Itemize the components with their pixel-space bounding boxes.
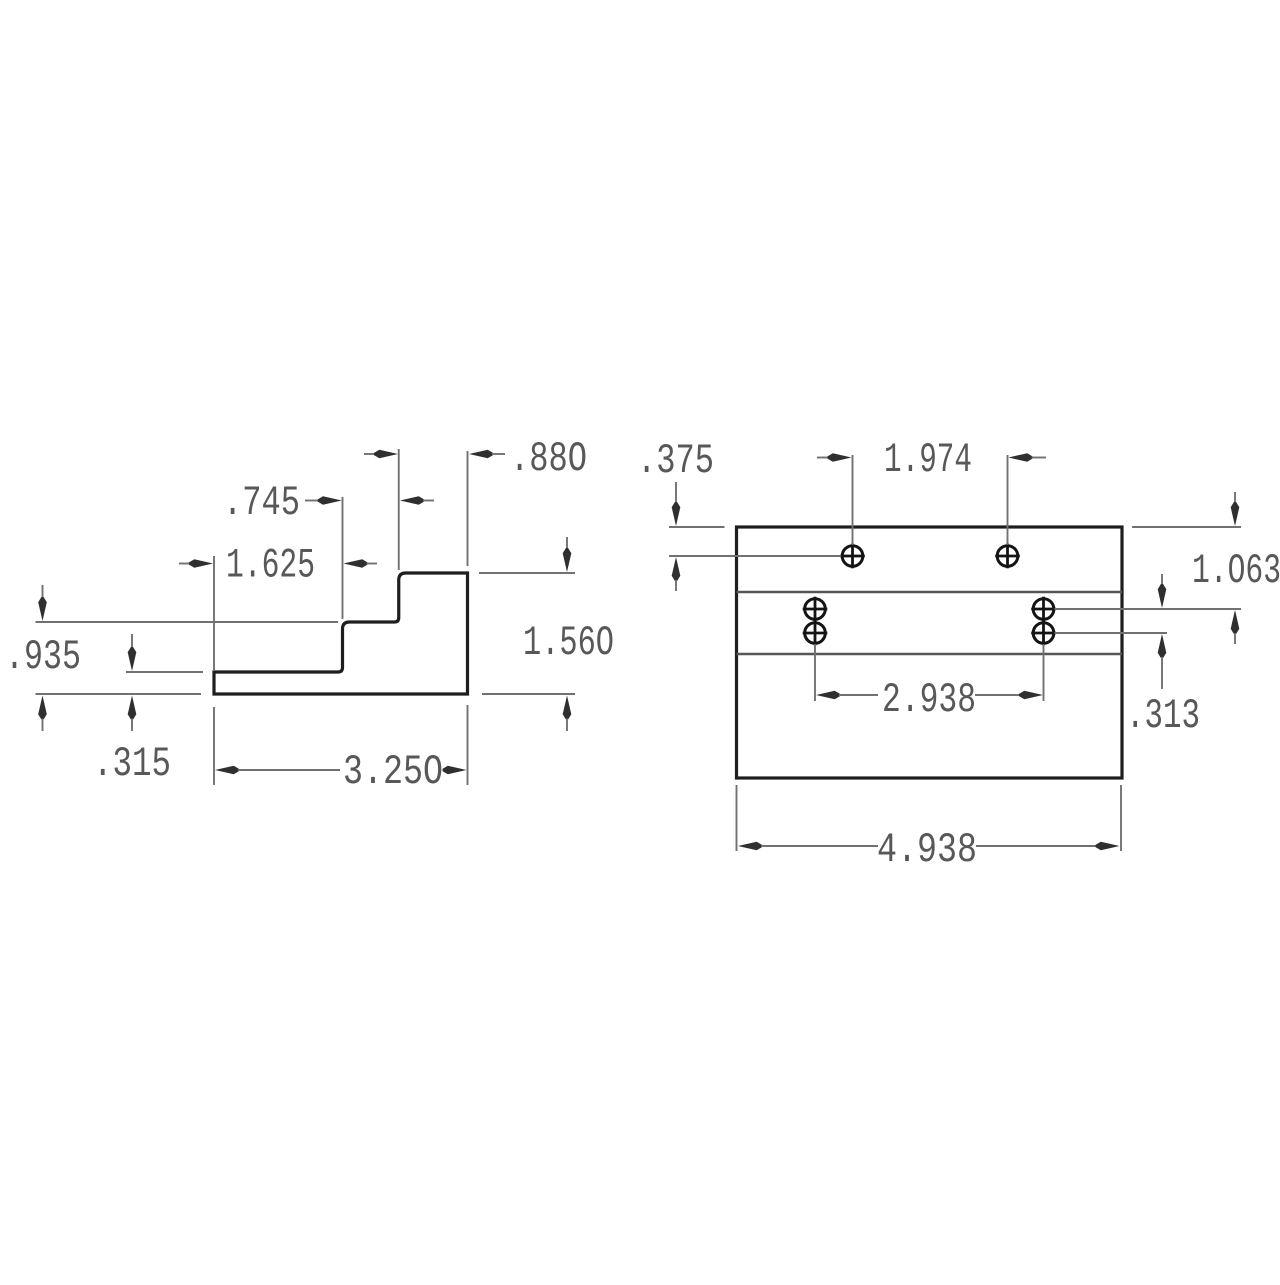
dim text 1.625 <box>226 543 315 590</box>
dim 1.974 right tail <box>1032 457 1047 459</box>
extension line first step x=342.5 <box>342 497 344 619</box>
extension line right edge x=467.5 <box>467 451 469 566</box>
dim .880 right arrowhead <box>469 450 493 459</box>
dim 2.938 line left <box>839 694 878 696</box>
extension line bottom-bar top y=672 <box>126 671 203 673</box>
hole mid-right lower <box>1031 621 1056 646</box>
hole mid-right upper <box>1031 597 1056 622</box>
dim 1.625 right arrowhead <box>344 559 368 568</box>
dim text .880 <box>510 436 587 483</box>
svg-text:.88O: .88O <box>510 436 587 483</box>
svg-text:1.56O: 1.56O <box>523 620 614 667</box>
extension line top hole left x=852.5 <box>852 455 854 545</box>
svg-text:1.O63: 1.O63 <box>1192 548 1280 595</box>
extension line second step x=398.75 <box>398 449 400 570</box>
extension line plate right x=1121 <box>1120 785 1122 851</box>
dim .375 top arrowhead <box>672 502 681 526</box>
dim text .375 <box>637 438 714 485</box>
extension line bottom right y=694 <box>482 693 575 695</box>
extension line x=467.5 for 3.250 <box>467 705 469 785</box>
dim text 1.974 <box>884 437 972 484</box>
svg-text:1.625: 1.625 <box>226 543 315 590</box>
dim 1.974 left tail <box>817 457 831 459</box>
dim text .315 <box>93 741 171 788</box>
dim 2.938 left arrowhead <box>816 691 840 700</box>
dim .315 top arrowhead <box>128 647 137 671</box>
dim text .935 <box>5 634 81 681</box>
dim .313 bottom arrowhead <box>1158 634 1167 658</box>
dim 3.250 right arrowhead <box>443 766 467 775</box>
dim 1.063 bottom tail <box>1234 633 1236 644</box>
dim .313 bottom tail <box>1161 657 1163 689</box>
dim 3.250 line right <box>443 769 446 771</box>
dim 1.560 bottom tail <box>566 719 568 732</box>
extension line top hole right x=1007.5 <box>1007 455 1009 545</box>
dim .315 top tail <box>131 634 133 649</box>
dim .745 right tail <box>423 500 434 502</box>
dim text .313 <box>1126 693 1200 740</box>
extension line mid-step level y=622 <box>36 621 339 623</box>
dim 1.063 bottom arrowhead <box>1231 610 1240 634</box>
svg-text:.313: .313 <box>1126 693 1200 740</box>
hole top-right <box>995 544 1020 569</box>
dim .745 left arrowhead <box>318 496 342 505</box>
svg-text:.315: .315 <box>93 741 171 788</box>
plate interior line upper y=592 <box>737 591 1123 593</box>
dim .313 top tail <box>1161 574 1163 587</box>
hole mid-left upper <box>803 597 828 622</box>
dim 3.250 left arrowhead <box>215 766 239 775</box>
svg-text:.935: .935 <box>5 634 81 681</box>
dim 4.938 right arrowhead <box>1096 842 1120 851</box>
dim text 2.938 <box>882 677 976 724</box>
extension line mid-row lower y=633 <box>1055 632 1168 634</box>
svg-text:2.938: 2.938 <box>882 677 976 724</box>
dim 1.560 top arrowhead <box>563 548 572 572</box>
dim 1.625 right tail <box>367 563 378 565</box>
plate face outline <box>737 527 1123 778</box>
svg-text:1.974: 1.974 <box>884 437 972 484</box>
dim .935 bottom arrowhead <box>38 696 47 720</box>
dim .315 bottom arrowhead <box>128 696 137 720</box>
dim .935 bottom tail <box>42 719 44 732</box>
dim .880 left arrowhead <box>374 450 398 459</box>
svg-text:.375: .375 <box>637 438 714 485</box>
extension line plate top right y=527 <box>1132 526 1241 528</box>
dim text .745 <box>223 480 300 527</box>
dim 3.250 line left <box>238 769 340 771</box>
dim 2.938 line right <box>975 694 1022 696</box>
dim 4.938 line right <box>976 845 1098 847</box>
dim 1.063 top tail <box>1234 492 1236 504</box>
dim .375 bottom arrowhead <box>672 557 681 581</box>
dim 4.938 line left <box>761 845 878 847</box>
extension line x=214 for 3.250 <box>213 707 215 785</box>
dim .375 bottom tail <box>675 580 677 591</box>
plate interior line lower y=654 <box>737 653 1123 655</box>
extension line plate top left y=527 <box>669 526 725 528</box>
dim .745 left tail <box>305 500 320 502</box>
hole mid-left lower <box>803 621 828 646</box>
dim 1.625 left tail <box>179 563 193 565</box>
dim text 4.938 <box>877 827 977 874</box>
dim 1.063 top arrowhead <box>1231 502 1240 526</box>
dim .745 right arrowhead <box>400 496 424 505</box>
extension line left edge x=214 <box>213 556 215 670</box>
dim .313 top arrowhead <box>1158 584 1167 608</box>
dim .935 top tail <box>42 585 44 599</box>
extension line plate left x=736.5 <box>736 785 738 851</box>
bracket side-profile outline <box>214 573 468 694</box>
dim .315 bottom tail <box>131 719 133 732</box>
dim text 3.250 <box>343 749 443 796</box>
svg-text:4.938: 4.938 <box>877 827 977 874</box>
extension line top edge right y=573 <box>479 572 575 574</box>
dim 1.974 right arrowhead <box>1009 453 1033 462</box>
dim 4.938 left arrowhead <box>738 842 762 851</box>
dim 1.560 bottom arrowhead <box>563 696 572 720</box>
dim 1.625 left arrowhead <box>189 559 213 568</box>
dim .880 left tail <box>364 453 378 455</box>
extension line mid hole right x=1043.5 <box>1043 644 1045 701</box>
dim .880 right tail <box>492 453 505 455</box>
dim .935 top arrowhead <box>38 597 47 621</box>
svg-text:.745: .745 <box>223 480 300 527</box>
extension line mid-row upper y=609 <box>1055 608 1242 610</box>
dim text 1.063 <box>1192 548 1280 595</box>
dim 1.560 top tail <box>566 537 568 550</box>
extension line mid hole left x=815 <box>814 644 816 701</box>
dim 1.974 left arrowhead <box>828 453 852 462</box>
dim .375 top tail <box>675 482 677 504</box>
svg-text:3.25O: 3.25O <box>343 749 443 796</box>
dim 2.938 right arrowhead <box>1019 691 1043 700</box>
hole top-left <box>840 544 865 569</box>
extension line bottom left y=694 <box>36 693 202 695</box>
extension line hole-row y=556 <box>669 555 841 557</box>
dim text 1.560 <box>523 620 614 667</box>
